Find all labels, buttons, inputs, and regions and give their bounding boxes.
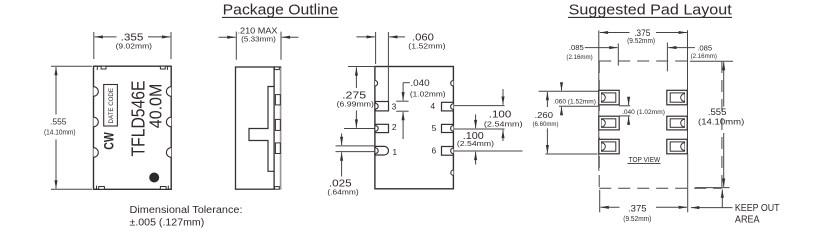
svg-text:5: 5 (432, 123, 437, 133)
dim .375 bottom arrows (601, 206, 620, 208)
right edge castellation arc top (451, 81, 454, 86)
svg-text:(2.54mm): (2.54mm) (457, 139, 495, 148)
dim .060 pad height: lower extension line (559, 105, 599, 107)
svg-text:(1.02mm): (1.02mm) (410, 89, 446, 98)
svg-text:(9.52mm): (9.52mm) (627, 38, 655, 45)
pad column extension lines (598, 30, 600, 61)
svg-text:.085: .085 (697, 43, 712, 52)
dim .085 right arrow (668, 47, 695, 49)
svg-text:.260: .260 (535, 111, 554, 120)
DATE CODE box (104, 85, 118, 127)
svg-text:(6.99mm): (6.99mm) (337, 100, 374, 109)
dim .210 MAX arrows (219, 36, 236, 38)
dim .260 arrows (546, 92, 548, 107)
pin 4 (442, 102, 454, 111)
svg-text:4: 4 (430, 101, 435, 111)
svg-text:(2.16mm): (2.16mm) (566, 54, 592, 61)
dim .040 lower arrow (402, 112, 404, 139)
svg-text:.555: .555 (50, 117, 67, 127)
svg-text:40.0M: 40.0M (145, 84, 165, 129)
side pad 3 (275, 143, 280, 154)
svg-text:.060 (1.52mm): .060 (1.52mm) (553, 98, 596, 105)
svg-text:Suggested Pad Layout: Suggested Pad Layout (569, 1, 733, 18)
svg-text:DATE CODE: DATE CODE (108, 88, 115, 124)
left pad row 2 (599, 116, 619, 130)
svg-text:(5.33mm): (5.33mm) (241, 37, 276, 44)
top edge notch left (101, 66, 106, 69)
svg-text:AREA: AREA (735, 215, 760, 226)
right pad row 2 (667, 116, 687, 130)
corner step lines (96, 66, 98, 70)
bottom edge notch left (99, 187, 105, 190)
svg-text:.085: .085 (569, 43, 584, 52)
bottom edge notch right (160, 187, 166, 190)
svg-text:Package Outline: Package Outline (223, 1, 339, 18)
svg-text:2: 2 (392, 122, 397, 132)
KEEP OUT AREA leader (691, 207, 732, 209)
side view right shaded edge (280, 67, 282, 190)
side view bottom-right step box (275, 187, 280, 190)
svg-text:1: 1 (392, 147, 397, 157)
svg-text:(2.54mm): (2.54mm) (484, 120, 523, 129)
pin 3 (375, 102, 388, 111)
right edge castellations (166, 87, 171, 97)
keep out area dashed outline (599, 60, 692, 62)
svg-text:.040 (1.02mm): .040 (1.02mm) (622, 109, 665, 116)
pin 5 (442, 124, 454, 132)
svg-text:(6.60mm): (6.60mm) (533, 121, 559, 128)
pin 6 (442, 147, 454, 156)
left pad row 1 (599, 90, 619, 105)
dim .355 arrows (95, 36, 117, 38)
svg-text:±.005 (.127mm): ±.005 (.127mm) (130, 218, 205, 229)
dim .260: extension lines (539, 90, 599, 92)
svg-text:Dimensional Tolerance:: Dimensional Tolerance: (130, 205, 243, 216)
dim .100 pin4-5 arrows (502, 89, 504, 105)
pin 1 (rounded) (375, 146, 388, 155)
svg-text:(9.02mm): (9.02mm) (116, 42, 153, 51)
pin 1 dot (149, 173, 159, 183)
svg-text:.040: .040 (410, 78, 429, 88)
dim .025: ticks (336, 145, 376, 147)
svg-text:(9.52mm): (9.52mm) (623, 214, 651, 223)
pin view body (375, 67, 454, 189)
left edge castellations (94, 87, 99, 97)
side pad 1 (275, 95, 280, 105)
svg-text:(14.10mm): (14.10mm) (44, 127, 76, 136)
svg-text:(1.52mm): (1.52mm) (408, 42, 446, 51)
svg-text:.375: .375 (634, 28, 650, 38)
svg-text:.555: .555 (708, 107, 727, 117)
dim .085 left arrow (585, 47, 618, 49)
dim .555 height: extension lines (51, 65, 92, 67)
dim .100 pin4-5: extension lines (454, 105, 505, 107)
right pad row 3 (667, 139, 687, 154)
side view body (236, 67, 275, 189)
svg-text:6: 6 (432, 145, 437, 155)
side pad 2 (275, 119, 280, 130)
left edge castellation arc (375, 81, 378, 86)
dim .210 MAX: extension lines (235, 32, 237, 60)
dim .040 gap: ticks (619, 105, 630, 107)
svg-text:CW: CW (101, 132, 117, 150)
dim .100 pin5-6 arrows (475, 114, 477, 128)
package front view body (94, 66, 172, 189)
dim .275: ticks (348, 66, 374, 68)
dim .375 top arrows (600, 32, 630, 34)
dim .060 pad height arrows (561, 84, 563, 91)
dim .060 arrows (356, 36, 374, 38)
dim .555 arrows (55, 67, 57, 115)
svg-text:3: 3 (392, 102, 397, 112)
side view top-right step box (275, 67, 280, 70)
top edge notch right (160, 66, 165, 69)
dim .085 right: tick (666, 43, 668, 72)
svg-text:(2.16mm): (2.16mm) (691, 53, 717, 60)
svg-text:.375: .375 (628, 203, 647, 214)
svg-text:KEEP OUT: KEEP OUT (735, 203, 780, 214)
dim .040 pin width: ticks (396, 100, 408, 102)
dim .275 arrows (355, 67, 357, 88)
pin 2 (375, 124, 388, 132)
svg-text:(14.10mm): (14.10mm) (698, 117, 745, 127)
dim .060: extension lines (375, 32, 377, 64)
left pad row 3 (599, 139, 619, 154)
dim .040 elbow leader (403, 82, 410, 84)
right edge castellation arc bottom (451, 170, 454, 175)
side seam cross profile (249, 87, 274, 172)
right pad row 1 (667, 90, 687, 105)
dim .555 keepout arrows (723, 62, 725, 107)
dim .040 gap arrows (628, 100, 630, 106)
side view top edge extension (274, 66, 281, 68)
dim .085 left: tick (617, 43, 619, 65)
svg-text:.210 MAX: .210 MAX (238, 26, 279, 35)
dim .355 width: extension lines (93, 32, 95, 59)
dim .025 arrows (341, 134, 343, 146)
svg-text:TOP VIEW: TOP VIEW (629, 155, 661, 164)
dim .555 keepout: extension lines (690, 60, 733, 62)
svg-text:(.64mm): (.64mm) (327, 188, 359, 197)
